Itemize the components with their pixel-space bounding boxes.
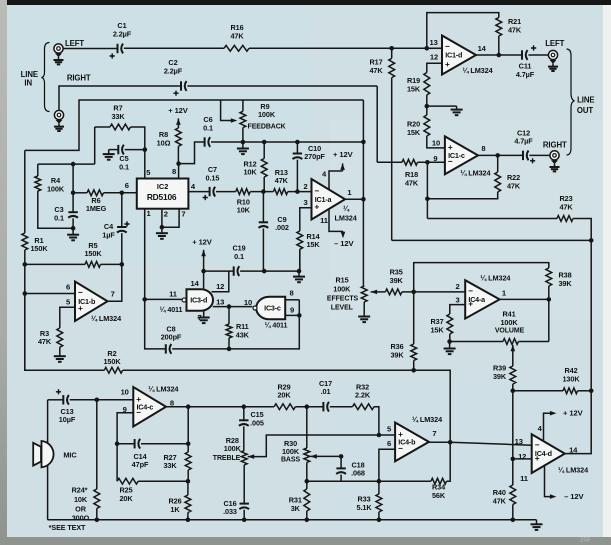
wire R12 to node [263, 177, 265, 192]
wire C6 to R9 bottom rail [211, 141, 243, 143]
wire C18 bottom lead [340, 475, 342, 482]
wire C14 to output riser [141, 443, 188, 445]
wire pin 12 to R19 [427, 63, 442, 72]
svg-text:150K: 150K [30, 244, 48, 253]
wire IC4-b out to IC4-d pin 13 [450, 442, 532, 445]
svg-text:2: 2 [164, 210, 168, 219]
wire [497, 155, 499, 172]
wire R21 to output [498, 36, 500, 55]
svg-text:¼ LM324: ¼ LM324 [480, 274, 511, 283]
wire IC1-d out to C11 [476, 54, 521, 56]
wire R15 wiper to R35 [371, 291, 386, 293]
resistor R26 [168, 495, 190, 514]
junction LEFT line / R17 [389, 46, 394, 51]
wire R40 bottom [512, 505, 514, 520]
junction R24 / rail [95, 518, 100, 523]
svg-text:MIC: MIC [63, 450, 77, 459]
svg-text:IC4-d: IC4-d [535, 449, 552, 458]
wire R8 to pin 8 [177, 146, 179, 163]
wire pin 12 to +12V rail [212, 271, 229, 292]
wire pin 4 supply [544, 413, 552, 441]
capacitor C6 [203, 115, 213, 147]
resistor R10 [236, 189, 251, 215]
wire [379, 480, 431, 482]
wire IC4-d output to feedback vertical [565, 452, 591, 454]
wiper arrow R15 [371, 290, 378, 295]
svg-text:43K: 43K [236, 331, 250, 340]
wire R35 to IC4-a pin 2 [402, 291, 465, 293]
junction R25/R26/R27 [186, 479, 191, 484]
wire [95, 126, 110, 128]
op-amp IC4-b [395, 423, 429, 462]
wire [548, 286, 550, 299]
resistor R33 [356, 494, 381, 512]
svg-text:10µF: 10µF [59, 415, 76, 424]
wire [73, 192, 87, 194]
wire R25 to R26 node [138, 480, 188, 482]
junction IC2 pins 2/7 [160, 225, 165, 230]
wire rail to IC1-a node [243, 141, 364, 143]
resistor R37 [430, 314, 452, 335]
svg-text:47K: 47K [508, 25, 522, 34]
wire C1 to R16 [124, 47, 224, 49]
wire to R24 [96, 400, 98, 489]
resistor R40 [493, 485, 516, 506]
wire R28 to C16 [243, 465, 245, 503]
resistor R16 [224, 23, 249, 51]
svg-text:¼ 4011: ¼ 4011 [160, 306, 183, 314]
svg-text:39K: 39K [558, 279, 572, 288]
junction pin 12 / R40 [511, 457, 516, 462]
wire pin13 to R21 [427, 13, 499, 49]
svg-text:15K: 15K [407, 84, 421, 93]
svg-text:VOLUME: VOLUME [495, 328, 525, 335]
capacitor C2 [164, 58, 187, 96]
wire R4 bottom [38, 191, 73, 228]
svg-text:¼ LM324: ¼ LM324 [148, 385, 179, 394]
svg-text:BASS: BASS [281, 457, 300, 464]
junction C10 top [295, 140, 300, 145]
wire pin 7 IC2 [162, 209, 179, 228]
wire [228, 307, 230, 324]
wire R11 bottom [228, 338, 230, 349]
svg-text:10K: 10K [243, 168, 257, 177]
resistor R23 [557, 194, 573, 221]
svg-text:IC1-b: IC1-b [78, 297, 96, 306]
junction pin5 / C5 [143, 147, 148, 152]
wire R29 to C17 [295, 406, 322, 408]
resistor R1 [22, 233, 48, 253]
wire pin 13 to IC3-c output [213, 306, 253, 308]
resistor R38 [546, 268, 572, 288]
svg-text:47K: 47K [369, 66, 383, 75]
svg-text:– 12V: – 12V [334, 239, 354, 248]
svg-text:47K: 47K [275, 176, 289, 185]
arrow -12V IC1-a [341, 232, 346, 239]
junction R31 / rail [305, 518, 310, 523]
junction pin 9 node [425, 160, 430, 165]
jack RIGHT output [550, 151, 559, 160]
svg-text:11: 11 [520, 474, 529, 483]
svg-text:.002: .002 [275, 223, 289, 232]
svg-text:– 12V: – 12V [564, 492, 584, 501]
svg-text:2: 2 [456, 282, 460, 291]
op-amp IC1-d [442, 36, 476, 75]
svg-text:IC3-d: IC3-d [190, 295, 207, 304]
wire R2 line [123, 369, 414, 371]
wire R7 riser to bias rail [94, 127, 96, 164]
wire pin 8 IC3-c [285, 299, 299, 301]
ground IC2 pins 2/7 [156, 227, 168, 239]
wire bottom ground rail [48, 519, 537, 521]
svg-text:15K: 15K [407, 128, 421, 137]
svg-text:.068: .068 [351, 469, 365, 478]
wire R27 to R26 [187, 470, 189, 481]
wire output down to R15 [362, 199, 364, 286]
wire riser to R18 [376, 86, 378, 162]
svg-text:LEVEL: LEVEL [331, 305, 354, 312]
wire C10 top lead [296, 142, 298, 153]
wire R33 bottom [378, 512, 380, 520]
wire [426, 106, 428, 115]
wire R32 corner to pin 5 line [374, 407, 379, 435]
wire R30 wiper to C18 [310, 455, 341, 457]
svg-text:RIGHT: RIGHT [67, 74, 91, 83]
svg-text:200pF: 200pF [161, 333, 182, 342]
wire pins 8-9 tie [298, 300, 300, 316]
capacitor C11 [516, 45, 536, 79]
resistor R19 [407, 73, 430, 96]
junction R6 left [71, 191, 76, 196]
svg-text:47K: 47K [493, 497, 507, 506]
resistor R21 [496, 17, 522, 36]
resistor R2 [103, 349, 122, 373]
junction R36 / R2 line [411, 368, 416, 373]
svg-text:IN: IN [24, 79, 32, 88]
junction C4 / R5 / IC1-b out [120, 262, 125, 267]
junction pin2 / C10 [295, 189, 300, 194]
svg-text:12: 12 [216, 282, 224, 291]
svg-text:6: 6 [125, 181, 129, 190]
svg-text:0.1: 0.1 [119, 162, 129, 171]
svg-text:−: − [78, 288, 83, 297]
wiper arrow R9 [231, 118, 238, 123]
wire clock node down to C8 [145, 299, 165, 349]
IC RD5106 IC2 [137, 179, 189, 209]
wire C19 to ground end [240, 270, 299, 272]
svg-text:258: 258 [580, 538, 591, 544]
junction C3 bottom / R4 [71, 226, 76, 231]
wire pin 5 to R3 [60, 307, 75, 328]
svg-text:IC1-d: IC1-d [445, 51, 462, 60]
ground LEFT output jack [548, 60, 558, 71]
wire R23 to right vertical [573, 219, 591, 241]
wire left vertical to R2 [24, 294, 26, 371]
svg-text:12: 12 [430, 53, 438, 62]
wire pin 8 into IC2 [178, 164, 180, 179]
svg-text:0.1: 0.1 [54, 213, 64, 222]
svg-text:.033: .033 [223, 507, 237, 516]
wire [449, 334, 451, 342]
capacitor C13 [56, 389, 76, 424]
wire output to C14 node [187, 407, 189, 444]
svg-text:+ 12V: + 12V [563, 409, 584, 418]
svg-text:OR: OR [75, 505, 87, 514]
wire R39 node to pin 12 [512, 391, 514, 459]
nand gate IC3-d [182, 289, 213, 311]
junction IC2 pin1 / clock line [142, 297, 147, 302]
op-amp IC4-a [465, 280, 499, 318]
svg-text:IC4-a: IC4-a [468, 295, 486, 304]
wire pin 9 IC3-c [285, 314, 299, 316]
wire IC1-b output riser [108, 264, 122, 301]
svg-text:+ 12V: + 12V [333, 150, 354, 159]
wire [342, 163, 344, 171]
wire C17 to R32 [330, 406, 353, 408]
svg-text:IC4-c: IC4-c [137, 402, 154, 411]
junction IC1-c output / R22 [495, 153, 500, 158]
wire R38 to summing node [414, 263, 549, 292]
wire R18 to pin 9 [418, 161, 445, 163]
wire riser to R18 [377, 161, 402, 163]
wire pin 12 [513, 458, 532, 460]
wire R1 top to R9 line [25, 100, 364, 150]
resistor R24 [94, 489, 100, 509]
ground R19/R20 divider [451, 106, 463, 115]
wire R37 node to R41 [450, 341, 503, 343]
capacitor C17 [319, 379, 332, 412]
capacitor C5 [118, 145, 129, 172]
wire R24 bottom [96, 509, 98, 520]
wire [306, 481, 308, 489]
svg-text:10: 10 [121, 387, 129, 396]
svg-text:8: 8 [172, 167, 176, 176]
svg-text:7: 7 [432, 429, 436, 438]
capacitor C14 [132, 439, 149, 469]
wire R1 top [24, 150, 26, 233]
resistor R34 [431, 478, 447, 500]
svg-text:FEEDBACK: FEEDBACK [248, 123, 286, 130]
wire C5 to pin5 [125, 149, 145, 151]
svg-text:39K: 39K [390, 350, 404, 359]
svg-text:6: 6 [387, 439, 391, 448]
svg-text:15K: 15K [430, 326, 444, 335]
svg-text:LM324: LM324 [334, 214, 357, 223]
svg-text:39K: 39K [390, 276, 404, 285]
wire vertical to IC4-d output [590, 391, 592, 454]
wire rail to output node [362, 142, 364, 199]
junction IC4-a output / R38 [547, 297, 552, 302]
svg-text:47K: 47K [559, 202, 573, 211]
wire R9 top line down to rail [362, 100, 364, 142]
capacitor C1 [110, 21, 132, 59]
wire right vertical [590, 240, 592, 390]
resistor R25 [117, 478, 138, 503]
wire to ground stub [427, 105, 457, 107]
wire C8 to R11 bottom [172, 348, 229, 350]
resistor R30 [304, 448, 310, 462]
wire C11 to LEFT out jack [528, 54, 548, 56]
ground RIGHT output jack [550, 160, 560, 171]
junction R12 top [262, 140, 267, 145]
wire [177, 118, 179, 128]
svg-text:13: 13 [216, 297, 224, 306]
capacitor C10 [293, 144, 326, 161]
svg-text:LEFT: LEFT [545, 39, 564, 48]
resistor R41 [503, 339, 518, 345]
wire R5 to C4 node [101, 263, 122, 265]
wire [512, 384, 514, 391]
microphone MIC [33, 441, 53, 467]
svg-text:47K: 47K [405, 178, 419, 187]
resistor R20 [407, 115, 430, 137]
svg-text:100K: 100K [333, 285, 351, 294]
svg-text:IC3-c: IC3-c [264, 304, 281, 313]
wire R7 to pin5 node [131, 127, 145, 150]
svg-text:47K: 47K [38, 337, 52, 346]
junction pin13 / R21 feedback [425, 46, 430, 51]
junction R30 riser [305, 404, 310, 409]
wire R26 bottom [187, 513, 189, 520]
junction IC1-d output / R21 [497, 53, 502, 58]
svg-text:14: 14 [478, 44, 487, 53]
svg-text:−: − [535, 440, 540, 449]
wire pin 14 IC3-d [203, 271, 205, 289]
wire R28 wiper to IC4-b pin 5 [248, 435, 395, 457]
svg-text:¼ LM324: ¼ LM324 [558, 466, 589, 475]
svg-text:R24*: R24* [72, 486, 88, 495]
svg-text:2.2µF: 2.2µF [113, 29, 132, 38]
wire C18 top lead [340, 456, 342, 467]
capacitor C3 [54, 205, 78, 222]
wire [342, 231, 344, 233]
wire R6 to pin 6 [104, 192, 137, 194]
wire pin 11 supply [329, 209, 343, 231]
junction R30 / R31 [305, 479, 310, 484]
junction C14 / R27 [186, 441, 191, 446]
svg-text:4.7µF: 4.7µF [516, 70, 535, 79]
wire R17 line to R23/R42 vertical [392, 239, 592, 241]
wire RIGHT jack to C2 [59, 86, 180, 93]
wire C5 ground side [109, 149, 118, 151]
arrow +12V IC4-d [550, 411, 557, 416]
svg-text:¼: ¼ [343, 204, 350, 213]
resistor R29 [274, 382, 295, 409]
wire R9 bottom [242, 128, 244, 142]
svg-text:100K: 100K [224, 444, 242, 453]
wire pin 2 IC2 [161, 209, 163, 228]
junction IC4-b output / R34 [448, 440, 453, 445]
wire R10 to node [250, 191, 273, 193]
svg-text:IC1-a: IC1-a [315, 195, 333, 204]
resistor R31 [289, 489, 310, 513]
resistor R39 [493, 364, 516, 385]
junction C16 / rail [242, 518, 247, 523]
junction pins 8/9 [297, 313, 302, 318]
svg-text:47K: 47K [507, 181, 521, 190]
svg-text:270pF: 270pF [304, 152, 325, 161]
op-amp IC4-d [532, 434, 565, 473]
ground C3/R4 [67, 228, 79, 240]
jack LEFT output [548, 50, 557, 59]
svg-text:1K: 1K [170, 505, 180, 514]
capacitor C4 [102, 221, 129, 239]
junction rail / IC1-a output riser [361, 140, 366, 145]
svg-text:2.2µF: 2.2µF [164, 66, 183, 75]
svg-text:10: 10 [432, 138, 440, 147]
wire gate inputs to C8 line [229, 315, 299, 349]
svg-text:+: + [445, 60, 450, 69]
resistor R11 [226, 322, 250, 339]
resistor R14 [297, 231, 321, 249]
svg-text:1MEG: 1MEG [86, 204, 107, 213]
junction pin 9 / C14 / R25 [115, 441, 120, 446]
svg-text:LEFT: LEFT [65, 39, 84, 48]
junction R40 / rail [511, 518, 516, 523]
svg-text:130K: 130K [562, 374, 580, 383]
svg-text:0.1: 0.1 [203, 123, 213, 132]
svg-text:¼ LM324: ¼ LM324 [462, 66, 493, 75]
wire C10 bottom lead [296, 160, 298, 192]
wire [203, 250, 205, 271]
wiper arrow R28 [248, 454, 255, 459]
wire summing node to R36 [413, 292, 415, 344]
svg-text:EFFECTS: EFFECTS [327, 296, 359, 303]
junction +12V / pin 14 IC3-d [201, 269, 206, 274]
capacitor C8 [161, 324, 182, 354]
wire mic node to C13 [48, 399, 63, 401]
wire clock line to IC3-d output [145, 298, 182, 300]
wire R30 bottom [306, 462, 308, 481]
junction R11 top [227, 304, 232, 309]
svg-text:13: 13 [429, 38, 437, 47]
svg-text:*SEE TEXT: *SEE TEXT [49, 523, 86, 532]
wire R20 to IC1-c pin 10 [427, 136, 445, 148]
ground R15 [358, 314, 370, 323]
wire R13 to IC1-a pin 2 [288, 191, 312, 193]
svg-text:9: 9 [433, 154, 437, 163]
svg-text:IC1-c: IC1-c [448, 151, 465, 160]
svg-text:13: 13 [515, 437, 523, 446]
wire [244, 406, 274, 408]
wire [37, 164, 39, 176]
svg-text:RIGHT: RIGHT [543, 141, 567, 150]
wire R36 bottom [413, 361, 415, 371]
svg-text:33K: 33K [111, 112, 125, 121]
resistor R6 [86, 190, 107, 213]
resistor R9 [240, 111, 246, 127]
wire [512, 459, 514, 485]
wire IC4-c output [166, 406, 188, 408]
resistor R12 [243, 159, 267, 178]
svg-text:RD5106: RD5106 [147, 192, 177, 202]
svg-text:.005: .005 [250, 419, 264, 428]
wire IC1-a output [345, 198, 363, 200]
junction R37 / R41 [447, 339, 452, 344]
wire C13 to IC4-c pin 10 [70, 399, 134, 401]
wire R31 bottom [306, 511, 308, 520]
resistor R13 [273, 168, 288, 195]
wire [263, 142, 265, 159]
wire R16 to IC1-d pin 13 [249, 47, 442, 49]
svg-text:8: 8 [481, 144, 485, 153]
arrow +12V IC3 [201, 250, 206, 256]
wire C4 bottom lead [121, 233, 123, 264]
wire R42 right [578, 390, 592, 392]
resistor R18 [402, 159, 419, 187]
svg-text:300Ω: 300Ω [72, 514, 90, 523]
svg-text:15K: 15K [306, 240, 320, 249]
